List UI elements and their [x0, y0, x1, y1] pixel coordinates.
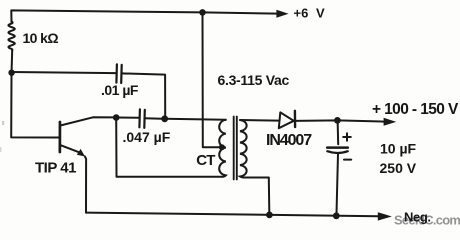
- transistor Q1 emitter lead: [61, 145, 80, 152]
- node dot secondary-neg junction: [266, 212, 273, 219]
- svg-text:10 kΩ: 10 kΩ: [23, 30, 59, 46]
- wire node N2 to .047 cap: [116, 117, 139, 119]
- transistor Q1 emitter arrowhead: [77, 149, 85, 157]
- svg-text:6.3-115 Vac: 6.3-115 Vac: [218, 72, 290, 88]
- svg-text:TIP 41: TIP 41: [35, 160, 76, 177]
- wire 10uF cap bottom to neg rail: [337, 154, 339, 214]
- transistor Q1 TIP 41 base bar: [58, 122, 61, 152]
- wire output node down to 10uF cap: [337, 120, 340, 144]
- svg-text:V: V: [316, 6, 325, 21]
- node dot cap-neg junction: [333, 212, 340, 219]
- arrowhead Neg: [378, 212, 392, 220]
- capacitor C3 plus sign: [343, 133, 351, 141]
- svg-text:+ 100 - 150 V: + 100 - 150 V: [372, 101, 459, 118]
- svg-text:10 µF: 10 µF: [380, 140, 417, 156]
- svg-text:.01 µF: .01 µF: [101, 82, 139, 98]
- transformer T1 core lines: [234, 117, 237, 180]
- wire base node to .01 cap: [12, 72, 117, 73]
- wire diode to output arrow: [295, 120, 384, 121]
- wire node A to transformer primary top: [165, 119, 226, 120]
- capacitor C3 10uF curved plate: [327, 151, 348, 153]
- wire .047 cap to node A: [145, 117, 162, 119]
- node dot collector node N2: [113, 114, 120, 121]
- svg-text:Neg.: Neg.: [404, 210, 431, 225]
- svg-text:IN4007: IN4007: [266, 132, 312, 149]
- node dot output: [334, 117, 341, 124]
- scan artifact left edge: [2, 121, 4, 125]
- svg-text:.047 µF: .047 µF: [123, 129, 171, 145]
- node dot node A: [161, 115, 168, 122]
- wire top rail from top-left corner to +6V: [11, 10, 278, 22]
- node dot CT: [219, 144, 225, 150]
- transistor Q1 collector lead: [61, 117, 114, 125]
- diode D1 cathode bar: [294, 111, 297, 127]
- capacitor C2 .047 uF plates: [139, 109, 144, 128]
- wire base node down and to transistor base: [11, 75, 59, 138]
- wire transformer secondary top to diode: [240, 119, 278, 122]
- arrowhead +6V: [276, 10, 288, 18]
- resistor R1: [8, 22, 14, 51]
- wire secondary bottom to neg rail: [244, 178, 270, 213]
- wire neg rail: [86, 213, 378, 217]
- svg-text:250 V: 250 V: [380, 160, 417, 176]
- arrowhead +100-150V: [384, 118, 397, 126]
- wire emitter down to neg rail: [85, 156, 86, 212]
- wire .01 cap right to node A: [122, 73, 166, 116]
- wire resistor bottom to base node: [11, 50, 14, 70]
- svg-text:+6: +6: [294, 6, 309, 21]
- diode D1 IN4007 triangle: [279, 112, 294, 128]
- svg-text:CT: CT: [196, 152, 215, 169]
- wire +6V junction down to CT: [203, 12, 220, 147]
- capacitor C3 minus sign: [344, 159, 351, 161]
- transformer T1 primary winding: [219, 120, 226, 177]
- capacitor C3 10uF top plate: [327, 146, 348, 149]
- transformer T1 secondary winding: [240, 120, 247, 178]
- capacitor C1 .01 uF plates: [116, 64, 121, 83]
- node dot +6V junction: [199, 9, 206, 16]
- node dot base node: [8, 70, 14, 76]
- wire node N2 down to primary bottom: [116, 118, 222, 177]
